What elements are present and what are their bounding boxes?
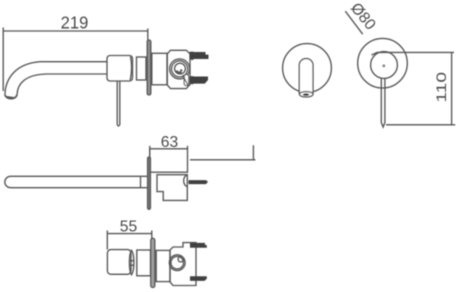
wall flange (bottom view) (151, 238, 155, 287)
spout (side view, curved tube) (5, 62, 107, 95)
lever rod (hanging down) (117, 81, 120, 126)
inner spacer block (156, 250, 170, 281)
cartridge ring (172, 61, 188, 77)
dimension 55 line (107, 233, 152, 235)
body right joint line (130, 57, 131, 81)
lever pin capsule (184, 75, 188, 86)
escutcheon circle (283, 44, 332, 93)
dimension 55 extension right (151, 231, 153, 239)
cartridge outer circle (170, 59, 190, 79)
svg-text:55: 55 (120, 218, 138, 235)
valve body (top view, stepped) (157, 175, 187, 201)
top supply pipe outline (190, 52, 194, 59)
handle lever (pointing down) (381, 78, 385, 127)
cartridge inner circle (175, 63, 186, 74)
top supply pipe threaded end (190, 52, 209, 59)
cartridge ring (bottom view) (171, 256, 184, 269)
valve housing block (170, 243, 196, 286)
outlet pin (dark) (189, 180, 209, 184)
dimension 110 bottom extension line (386, 124, 455, 126)
wall flange (edge-on) (147, 40, 151, 95)
cartridge detail dot (176, 71, 181, 73)
dimension 110 top extension line (372, 52, 455, 55)
dimension 63 extension left (149, 146, 151, 156)
svg-text:219: 219 (61, 12, 89, 33)
bottom supply pipe threaded end (190, 77, 209, 84)
spout outlet tip (5, 94, 17, 98)
dimension 55 extension left (106, 231, 108, 250)
bottom supply pipe outline (190, 77, 194, 84)
escutcheon outer circle (358, 38, 408, 88)
dimension 219 extension line left (2, 28, 4, 92)
svg-text:110: 110 (434, 72, 450, 103)
svg-text:63: 63 (161, 134, 179, 151)
bottom supply pipe (bottom view) dark (190, 276, 207, 281)
cartridge housing block (167, 50, 190, 88)
handle base inner circle (371, 52, 398, 79)
dimension 110 line (451, 52, 453, 125)
mixer body (107, 56, 133, 82)
handle lens piece (129, 250, 134, 274)
wall flange (top view) (148, 157, 151, 209)
spout outlet ellipse (299, 92, 313, 97)
spout outlet opening (303, 93, 309, 96)
connector cylinder (137, 57, 147, 80)
small port circle (178, 257, 183, 262)
dimension diameter 80 leader (345, 11, 362, 34)
pin diagonal (183, 75, 188, 85)
inner body block (152, 53, 167, 85)
body bulge half-ellipse (184, 175, 188, 187)
tube joint line (140, 176, 142, 187)
spout front tube (299, 59, 313, 94)
spout tube (from above) (5, 176, 148, 187)
dimension 219 extension line right (147, 29, 149, 42)
dimension 219 line (3, 30, 148, 32)
handle center dot (383, 65, 385, 67)
cartridge circle (bottom view) (169, 255, 185, 271)
dimension 63 extension right (187, 146, 189, 149)
handle hub block (137, 250, 151, 276)
lens detail lines (130, 261, 134, 266)
in-wall housing box (150, 149, 188, 172)
top supply pipe (bottom view) dark (190, 243, 207, 248)
handle body (107, 250, 131, 275)
wall reference line (190, 145, 256, 160)
